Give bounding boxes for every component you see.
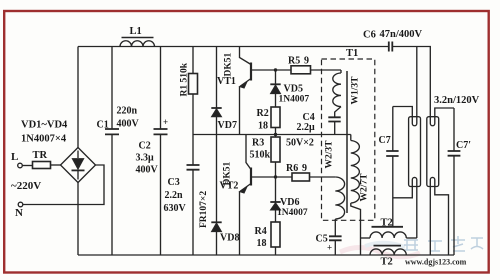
svg-text:220n: 220n bbox=[117, 106, 138, 117]
bridge rectifier VD1-VD4 bbox=[61, 148, 96, 183]
transformer T2 winding 2 bbox=[370, 246, 406, 255]
wire L to TR bbox=[22, 165, 32, 167]
wire tube2 bottom-right pin bbox=[435, 187, 449, 256]
transformer T1 dashed box bbox=[322, 59, 375, 220]
fuse TR bbox=[33, 162, 51, 169]
svg-text:VT1: VT1 bbox=[217, 76, 236, 87]
resistor R1 bbox=[189, 47, 198, 135]
svg-text:C1: C1 bbox=[97, 120, 109, 131]
resistor R6 bbox=[276, 173, 336, 181]
capacitor C5 bbox=[329, 236, 342, 255]
inductor L1 bbox=[120, 38, 155, 47]
svg-text:1N4007×4: 1N4007×4 bbox=[21, 134, 67, 145]
svg-text:+: + bbox=[163, 117, 168, 127]
transistor VT1 bbox=[240, 47, 276, 135]
capacitor C6 bbox=[389, 42, 393, 52]
wire top bus left of C6 bbox=[78, 46, 388, 48]
lamp tube 1 bbox=[409, 117, 421, 187]
T1 core bbox=[346, 71, 348, 213]
node L terminal bbox=[18, 163, 23, 168]
svg-text:1N4007: 1N4007 bbox=[279, 95, 310, 105]
wire tube1 bottom-right pin to T2 bbox=[416, 187, 418, 239]
winding W2/3T bbox=[335, 177, 344, 236]
wire tube2 top-right pin to C7' bbox=[435, 108, 454, 117]
svg-text:VT2: VT2 bbox=[220, 181, 239, 192]
wire TR to bridge bbox=[51, 164, 61, 166]
wire W2/7T to T2 bbox=[361, 237, 371, 239]
svg-text:FR107×2: FR107×2 bbox=[199, 191, 209, 228]
svg-text:R2: R2 bbox=[257, 108, 269, 119]
svg-text:C6: C6 bbox=[363, 30, 376, 41]
svg-text:2.2μ: 2.2μ bbox=[297, 122, 316, 133]
svg-text:R6: R6 bbox=[286, 163, 298, 174]
svg-text:TR: TR bbox=[33, 150, 48, 161]
winding W2/7T bbox=[351, 135, 361, 256]
resistor R5 bbox=[276, 66, 342, 74]
diode VD6 bbox=[270, 177, 280, 222]
wire tube1 bottom-left pin bbox=[393, 187, 413, 198]
svg-text:www.dgjs123.com: www.dgjs123.com bbox=[405, 258, 467, 267]
wire midpoint rail bbox=[193, 134, 351, 136]
svg-text:1N4007: 1N4007 bbox=[277, 208, 308, 218]
capacitor C3 bbox=[187, 135, 200, 256]
wire bridge bottom to bus bbox=[77, 183, 79, 256]
lamp tube 2 bbox=[427, 117, 439, 187]
diode VD5 bbox=[270, 70, 280, 107]
svg-text:18: 18 bbox=[257, 238, 267, 249]
capacitor C2 bbox=[154, 47, 168, 256]
svg-text:R5: R5 bbox=[288, 56, 300, 67]
svg-text:R1 510k: R1 510k bbox=[180, 62, 190, 96]
svg-text:VD6: VD6 bbox=[280, 197, 299, 208]
node N terminal bbox=[18, 202, 23, 207]
svg-text:T2: T2 bbox=[381, 257, 393, 268]
svg-text:9: 9 bbox=[304, 56, 309, 67]
svg-text:W2/3T: W2/3T bbox=[325, 140, 335, 169]
svg-text:47n/400V: 47n/400V bbox=[380, 29, 423, 40]
diode VD7 bbox=[211, 47, 221, 135]
capacitor C7' bbox=[448, 108, 461, 255]
svg-text:C7′: C7′ bbox=[456, 140, 471, 151]
svg-text:18: 18 bbox=[258, 121, 268, 132]
wire N to bridge right corner bbox=[23, 165, 104, 205]
node base2 junction bbox=[274, 175, 277, 178]
svg-text:510k: 510k bbox=[250, 150, 271, 161]
capacitor C4 bbox=[328, 117, 340, 134]
svg-text:R3: R3 bbox=[252, 138, 264, 149]
winding W1/3T bbox=[333, 70, 341, 117]
node mid junction bbox=[274, 133, 277, 136]
svg-text:400V: 400V bbox=[136, 165, 159, 176]
svg-text:VD1~VD4: VD1~VD4 bbox=[21, 120, 68, 131]
resistor R3 bbox=[271, 135, 280, 178]
svg-text:9: 9 bbox=[302, 163, 307, 174]
svg-text:3.3μ: 3.3μ bbox=[136, 153, 155, 164]
capacitor C7 bbox=[386, 107, 398, 227]
svg-text:2.2n: 2.2n bbox=[165, 190, 184, 201]
svg-text:DK51: DK51 bbox=[224, 53, 234, 77]
diode VD8 bbox=[211, 135, 221, 256]
svg-text:3.2n/120V: 3.2n/120V bbox=[434, 95, 480, 106]
transformer T2 winding 1 bbox=[370, 227, 417, 238]
wire bridge top to bus bbox=[77, 47, 79, 148]
wire R2 to mid node bbox=[275, 128, 277, 135]
wire bus drop to tube1 right pin bbox=[416, 47, 418, 117]
svg-text:W1/3T: W1/3T bbox=[351, 76, 361, 105]
svg-text:VD7: VD7 bbox=[218, 120, 237, 131]
wire tube1 top-left pin to C7 bbox=[393, 107, 413, 117]
svg-text:VD5: VD5 bbox=[284, 84, 303, 95]
svg-text:C3: C3 bbox=[168, 177, 180, 188]
transistor VT2 bbox=[240, 135, 276, 256]
svg-text:50V×2: 50V×2 bbox=[286, 138, 314, 149]
capacitor C1 bbox=[105, 47, 119, 256]
wire tube2 bottom-left pin bbox=[429, 187, 431, 256]
svg-text:T1: T1 bbox=[346, 48, 358, 59]
wire top bus right of C6 bbox=[393, 47, 430, 117]
svg-text:400V: 400V bbox=[117, 119, 140, 130]
node base1 junction bbox=[274, 68, 277, 71]
svg-text:N: N bbox=[15, 207, 23, 219]
svg-text:VD8: VD8 bbox=[220, 233, 239, 244]
svg-text:+: + bbox=[327, 243, 332, 253]
wire bottom bus bbox=[78, 254, 454, 256]
svg-text:~220V: ~220V bbox=[11, 180, 41, 192]
svg-text:T2: T2 bbox=[381, 218, 393, 229]
resistor R4 bbox=[271, 222, 280, 255]
svg-text:L: L bbox=[11, 151, 18, 163]
resistor R2 bbox=[271, 107, 280, 128]
svg-text:R4: R4 bbox=[255, 226, 267, 237]
svg-text:W2/7T: W2/7T bbox=[360, 173, 370, 202]
svg-text:C5: C5 bbox=[316, 234, 328, 245]
svg-text:C7: C7 bbox=[379, 135, 391, 146]
svg-text:630V: 630V bbox=[164, 203, 187, 214]
svg-text:C2: C2 bbox=[139, 141, 151, 152]
svg-text:L1: L1 bbox=[130, 26, 142, 37]
